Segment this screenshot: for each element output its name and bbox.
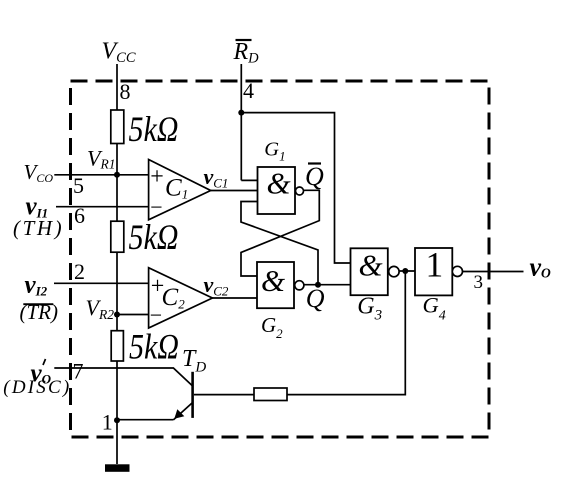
svg-text:5kΩ: 5kΩ	[129, 217, 179, 257]
svg-text:5: 5	[73, 173, 84, 198]
svg-text:+: +	[150, 164, 164, 190]
svg-text:4: 4	[243, 78, 254, 103]
svg-text:5kΩ: 5kΩ	[129, 110, 179, 150]
svg-text:−: −	[150, 302, 162, 327]
svg-text:6: 6	[74, 203, 85, 228]
svg-text:7: 7	[73, 359, 84, 384]
svg-text:2: 2	[74, 259, 85, 284]
svg-text:Q: Q	[306, 284, 325, 313]
svg-text:&: &	[267, 166, 291, 201]
svg-text:−: −	[150, 195, 162, 220]
svg-text:Q: Q	[305, 162, 324, 191]
svg-text:&: &	[359, 248, 383, 283]
svg-text:8: 8	[120, 79, 131, 104]
svg-text:&: &	[261, 263, 285, 298]
svg-text:5kΩ: 5kΩ	[129, 327, 179, 367]
svg-text:(DISC): (DISC)	[3, 377, 71, 398]
svg-text:1: 1	[426, 245, 444, 285]
svg-text:1: 1	[102, 410, 113, 435]
svg-text:(TH): (TH)	[13, 216, 64, 240]
svg-text:3: 3	[474, 272, 484, 293]
